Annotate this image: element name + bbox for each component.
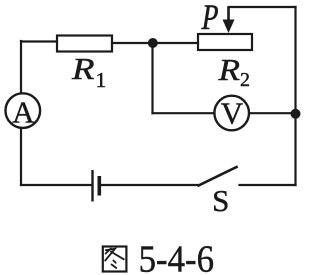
hanzi inner dot 1: [113, 261, 115, 263]
svg-text:V: V: [221, 95, 244, 130]
svg-text:2: 2: [240, 69, 250, 91]
svg-text:P: P: [199, 0, 221, 38]
wire bottom to battery: [21, 184, 92, 186]
wiper arrow shaft: [227, 7, 230, 23]
svg-text:R: R: [217, 52, 240, 87]
wire to voltmeter left: [153, 112, 215, 114]
wire left vertical (top): [20, 41, 22, 93]
wire right vertical upper: [294, 7, 296, 114]
caption hanzi "tu" (figure) box: [103, 247, 127, 272]
battery cell short plate: [98, 176, 102, 196]
wire switch to bottom-right corner: [240, 184, 296, 186]
wire right vertical lower: [294, 114, 296, 185]
hanzi inner stroke pie: [106, 249, 111, 254]
wire top-left horizontal: [21, 40, 57, 42]
wire node A to R2: [153, 42, 199, 44]
svg-text:S: S: [212, 183, 229, 218]
switch S lever: [199, 167, 237, 186]
wire wiper top: [229, 6, 296, 8]
battery cell long plate: [91, 170, 93, 202]
svg-text:R: R: [71, 51, 95, 86]
voltmeter V1 circle: [214, 96, 249, 131]
hanzi inner stroke na: [111, 252, 124, 260]
wire ammeter bottom: [20, 129, 22, 186]
node A junction dot: [148, 38, 158, 48]
svg-text:1: 1: [96, 68, 107, 92]
wire voltmeter right to node B: [249, 112, 295, 114]
wire node A down: [151, 43, 153, 113]
svg-text:A: A: [12, 94, 35, 129]
hanzi inner dot 2: [112, 265, 117, 269]
ammeter A1 circle: [6, 93, 41, 128]
resistor R2 (rheostat body): [198, 34, 252, 50]
resistor R1: [57, 36, 112, 52]
wire battery to switch: [100, 184, 199, 186]
hanzi inner stroke hengpie: [105, 249, 115, 261]
svg-text:5-4-6: 5-4-6: [139, 239, 215, 275]
wire R1 to node A: [112, 42, 153, 44]
node B junction dot: [291, 109, 301, 119]
wiper arrow head: [223, 20, 235, 34]
